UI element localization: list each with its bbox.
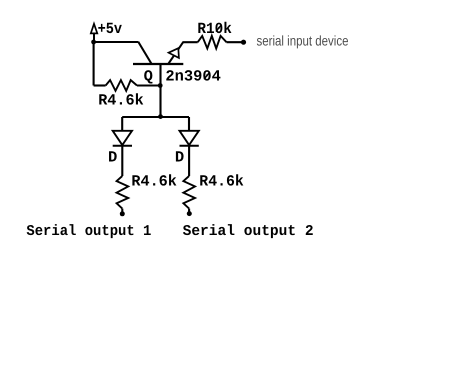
svg-text:D: D [108,148,117,166]
svg-text:R4.6k: R4.6k [199,173,244,191]
svg-text:R4.6k: R4.6k [131,173,177,191]
wire right drop to diode D2 [188,117,190,131]
node serial input terminal [241,40,246,45]
svg-text:Serial output 2: Serial output 2 [183,223,314,240]
wire emitter to R10k [183,41,198,43]
wire D1 to R2 [121,146,123,176]
node output 1 terminal [120,211,125,216]
node V+ junction [91,40,96,45]
transistor Q1 emitter arrow [169,48,179,58]
svg-text:R10k: R10k [197,20,232,38]
svg-text:2n3904: 2n3904 [165,67,221,85]
wire R2 to output 1 terminal [121,209,123,213]
wire T junction horizontal [122,116,189,118]
svg-text:serial input device: serial input device [257,33,349,49]
node T junction [158,114,163,119]
transistor Q1 base bar [133,63,183,65]
svg-text:Serial output 1: Serial output 1 [26,223,151,240]
wire V+ down to R4.6k [93,42,95,86]
diode D1 [113,131,132,146]
resistor R3 4.6k [183,176,195,209]
wire V+ branch to R4.6k [94,84,106,86]
wire R10k to terminal [227,41,244,43]
svg-text:R4.6k: R4.6k [98,91,144,109]
wire R4.6k to base node [137,84,161,86]
resistor R2 4.6k [117,176,129,209]
wire V+ to collector diagonal [94,41,139,43]
svg-text:+5v: +5v [98,20,123,38]
wire R3 to output 2 terminal [188,209,190,213]
resistor R4.6k base [106,80,137,91]
wire left drop to diode D1 [121,117,123,131]
transistor Q1 emitter diagonal [168,42,183,64]
node output 2 terminal [187,211,192,216]
wire emitter vertical down [159,64,161,117]
svg-text:D: D [175,148,184,166]
power +5v arrow [91,24,98,42]
svg-text:Q: Q [144,67,153,85]
wire D2 to R3 [188,146,190,176]
resistor R10k [198,36,227,49]
node base junction [158,83,163,88]
diode D2 [180,131,199,146]
transistor Q1 collector diagonal [138,42,151,64]
